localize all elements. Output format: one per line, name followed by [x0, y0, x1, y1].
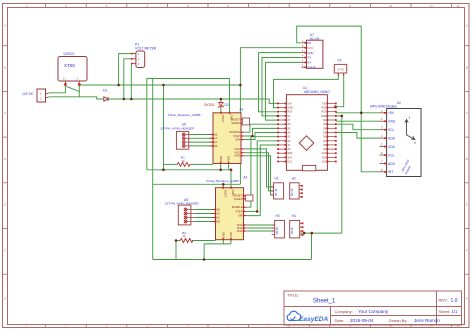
junction MPU 5V: [360, 112, 363, 115]
svg-text:M4 4P: M4 4P: [290, 227, 294, 235]
svg-text:GND: GND: [287, 107, 293, 110]
junction lower bus / D2: [220, 98, 223, 101]
svg-text:TX: TX: [307, 56, 311, 60]
wire A1 gnd bus: [147, 169, 231, 171]
svg-text:10: 10: [389, 4, 393, 8]
A1 right pin stubs: [209, 120, 245, 156]
wire 12V jack pin2: [49, 96, 80, 98]
svg-text:GND: GND: [307, 51, 313, 55]
wire A1 step to nano: [245, 128, 278, 136]
wire R3 left lead: [176, 241, 180, 260]
A2 jumper box: [246, 195, 253, 201]
svg-text:D2: D2: [225, 103, 229, 107]
svg-text:JST-PH_4-PIN_HEADER: JST-PH_4-PIN_HEADER: [160, 126, 195, 130]
svg-text:1A: 1A: [214, 136, 217, 140]
svg-text:RST: RST: [321, 111, 326, 114]
svg-text:G: G: [466, 297, 468, 301]
wire HC05 GND to nano: [259, 53, 302, 112]
svg-text:EasyEDA: EasyEDA: [299, 316, 329, 323]
svg-text:Sheet:: Sheet:: [439, 309, 451, 314]
module U2 MPU-6050: [370, 101, 421, 177]
buzzer P3: [334, 59, 346, 77]
junction A2 bus / VMOT: [222, 183, 225, 186]
svg-text:Your Company: Your Company: [358, 309, 389, 314]
wire voltmeter pin1: [119, 54, 132, 85]
svg-text:M3 4P: M3 4P: [275, 227, 279, 235]
svg-text:RST: RST: [287, 111, 292, 114]
wire A1 dir to nano: [245, 133, 278, 140]
svg-text:VDD: VDD: [227, 156, 231, 162]
nano diamond: [299, 136, 314, 151]
svg-text:C: C: [466, 111, 468, 115]
wire nano to MPU SDA: [336, 133, 380, 139]
diode D2 (zener): [204, 103, 229, 108]
svg-text:2B: 2B: [214, 144, 217, 148]
wire U5 to A1 pins: [190, 134, 213, 136]
svg-text:TITLE:: TITLE:: [287, 293, 299, 298]
svg-text:A2: A2: [243, 176, 247, 180]
svg-text:D: D: [4, 157, 6, 161]
A1 jumper box: [242, 118, 249, 125]
junction lower bus / VM3: [130, 98, 133, 101]
svg-text:1A: 1A: [217, 211, 220, 215]
svg-text:RX0: RX0: [322, 107, 327, 110]
svg-text:DIR: DIR: [238, 214, 243, 218]
junction gnd bus / A2 gnd: [230, 169, 233, 172]
svg-text:12V DC: 12V DC: [22, 92, 34, 96]
svg-text:E: E: [4, 203, 6, 207]
svg-text:XDA: XDA: [388, 145, 396, 149]
svg-text:GND: GND: [231, 190, 235, 196]
svg-text:12: 12: [456, 4, 460, 8]
wire HC05 EN loop: [297, 26, 362, 113]
svg-text:Pololu_Breakout_A4988: Pololu_Breakout_A4988: [168, 113, 201, 117]
wire R3 right lead: [192, 240, 216, 242]
svg-text:D10: D10: [322, 152, 327, 155]
svg-text:1.0: 1.0: [451, 298, 458, 304]
svg-text:2019-09-04: 2019-09-04: [350, 318, 374, 323]
wire bottom bus riser: [203, 244, 205, 260]
svg-text:2A: 2A: [214, 140, 217, 144]
header P1 VOLT METER: [131, 42, 157, 67]
svg-text:REF: REF: [287, 152, 292, 155]
svg-text:B: B: [4, 66, 6, 70]
svg-text:XCL: XCL: [388, 153, 395, 157]
svg-text:VMOT: VMOT: [224, 190, 228, 198]
svg-text:ADO: ADO: [388, 162, 396, 166]
junction buzzer right: [334, 105, 337, 108]
wire switch diagonal: [67, 86, 80, 91]
svg-text:U2: U2: [397, 101, 401, 105]
wire R1 right lead: [190, 163, 213, 165]
svg-text:B: B: [466, 66, 468, 70]
A1 pin labels: [214, 115, 241, 158]
wire HC05 VCC to vertical: [240, 48, 301, 185]
svg-text:A: A: [4, 24, 6, 28]
svg-text:RX: RX: [307, 61, 311, 65]
wire loop top: [147, 78, 230, 80]
svg-text:M2 4P: M2 4P: [290, 188, 294, 196]
title block: [284, 291, 462, 325]
svg-text:11: 11: [430, 4, 433, 8]
header U5 JST-PH_4-PIN_HEADER: [160, 123, 195, 150]
wire A2 bottom pins: [222, 240, 224, 244]
junction top bus / x163: [162, 84, 165, 87]
wire A1 MS3 to H1: [245, 156, 274, 195]
wire A2 top gnd pin: [230, 170, 232, 188]
svg-text:MS3: MS3: [234, 154, 240, 158]
svg-text:VDD: VDD: [229, 232, 233, 238]
svg-text:G: G: [4, 297, 6, 301]
svg-text:Jens Ramon: Jens Ramon: [414, 318, 440, 323]
svg-text:GND: GND: [219, 156, 223, 162]
svg-text:Sheet_1: Sheet_1: [313, 299, 336, 305]
junction A1 step: [251, 135, 254, 138]
svg-text:H2: H2: [292, 177, 296, 181]
wire nano right to H4 bus: [336, 116, 342, 233]
header H3: [272, 214, 285, 238]
junction nano/H4 riser: [341, 115, 344, 118]
wire A2 bottom bus: [204, 243, 231, 245]
nano right pin stubs: [327, 103, 336, 161]
wire A1 MS1 to H1: [245, 149, 274, 187]
svg-text:GND: GND: [321, 115, 327, 118]
wire jack to diode D1: [78, 86, 80, 97]
svg-text:D: D: [466, 157, 468, 161]
wire lower bus after D1: [108, 99, 278, 103]
svg-text:ENABLE: ENABLE: [232, 205, 243, 209]
wire to diode D1: [79, 97, 103, 99]
junction nano TX pin: [277, 115, 280, 118]
wire HC05 TX to nano: [262, 58, 302, 116]
svg-text:DIR: DIR: [235, 137, 240, 141]
svg-text:1B: 1B: [217, 207, 220, 211]
wire U6 to A2 pins: [194, 209, 216, 211]
wire nano to MPU 5V: [336, 112, 380, 114]
A1 pin ticks: [212, 112, 243, 164]
stepper driver A1 Pololu_Breakout_A4988: [168, 108, 250, 164]
svg-text:1B: 1B: [214, 132, 217, 136]
svg-text:F: F: [466, 248, 468, 252]
svg-text:P3: P3: [338, 59, 342, 63]
junction top bus / x248: [239, 84, 242, 87]
svg-text:0775: 0775: [338, 67, 345, 71]
svg-text:GND: GND: [230, 115, 234, 121]
svg-text:D1: D1: [103, 89, 107, 93]
junction bottom bus / riser: [203, 258, 206, 261]
header H1: [271, 177, 284, 199]
wire vertical x152 long: [152, 79, 154, 260]
svg-text:H3: H3: [276, 214, 280, 218]
wire bottom bus to H4 bus riser: [311, 233, 313, 259]
svg-text:1k: 1k: [183, 234, 187, 238]
wire bottom long bus: [153, 259, 312, 261]
junction A2 step: [256, 210, 259, 213]
junction H4 bus b: [311, 232, 314, 235]
svg-text:MS1: MS1: [234, 147, 240, 151]
svg-text:VIN: VIN: [287, 102, 291, 105]
svg-text:1/1: 1/1: [452, 309, 458, 314]
wire MPU INT riser: [361, 113, 379, 172]
svg-text:VOLT METER: VOLT METER: [135, 46, 157, 50]
junction top bus / VM1: [117, 84, 120, 87]
svg-text:Pololu_Breakout_A4988: Pololu_Breakout_A4988: [206, 179, 239, 183]
svg-text:H4: H4: [292, 214, 296, 218]
wire R1 left lead: [164, 163, 178, 165]
svg-text:E: E: [466, 203, 468, 207]
resistor R3: [180, 231, 193, 243]
wire D2 link top: [220, 99, 222, 102]
svg-text:1+: 1+: [63, 77, 66, 81]
svg-text:+5V: +5V: [388, 111, 395, 115]
svg-text:D13: D13: [287, 161, 292, 164]
junction gnd bus / A1 pin: [219, 169, 222, 172]
wire D2 link bottom: [220, 107, 222, 113]
header H2: [290, 177, 303, 199]
svg-text:GND: GND: [221, 232, 225, 238]
MPU axis icon: [405, 120, 415, 140]
wire A2 dir to nano: [248, 145, 278, 216]
svg-text:STEP: STEP: [235, 209, 242, 213]
wire A2 enable to nano: [248, 137, 278, 208]
connector XT60: [58, 52, 87, 86]
svg-text:5V: 5V: [287, 115, 290, 118]
wire H4 area bus: [300, 232, 342, 234]
diode D1: [103, 89, 108, 102]
wire voltmeter pin2: [124, 59, 132, 99]
wire A1 bottom pins to gnd bus: [220, 164, 222, 170]
svg-text:A1: A1: [240, 108, 244, 112]
svg-text:STATE: STATE: [307, 65, 316, 69]
EasyEDA logo: [287, 311, 328, 323]
wire nano to MPU GND: [336, 120, 380, 122]
wire A1 MS2 to H1: [245, 153, 274, 191]
wire nano to MPU SCL: [336, 124, 380, 130]
wire buzzer right leg to nano: [336, 73, 344, 107]
svg-text:TX1: TX1: [322, 102, 327, 105]
wire 12V jack pin1 to XT60 pin1: [49, 85, 66, 93]
wire A2 MS3 to H3: [248, 230, 275, 232]
svg-text:INT: INT: [388, 170, 393, 174]
svg-text:M1 4P: M1 4P: [274, 188, 278, 196]
svg-text:STEP: STEP: [233, 134, 240, 138]
junction gnd bus / R1: [162, 169, 165, 172]
svg-text:12VDC: 12VDC: [63, 52, 75, 56]
svg-text:Company:: Company:: [335, 309, 353, 314]
wire A2 VMOT drop: [222, 184, 224, 187]
svg-text:VCC: VCC: [307, 46, 313, 50]
wire +12V top bus: [79, 84, 240, 86]
svg-text:SLEEP: SLEEP: [234, 197, 243, 201]
wire voltmeter pin3: [130, 63, 133, 99]
svg-text:2A: 2A: [217, 215, 220, 219]
svg-text:2-: 2-: [77, 77, 79, 81]
svg-text:MS3: MS3: [237, 229, 243, 233]
svg-text:REV:: REV:: [439, 298, 448, 303]
svg-text:A: A: [466, 24, 468, 28]
mcu U1 ARDUINO_NANO: [277, 86, 336, 171]
resistor R1: [177, 155, 190, 166]
svg-text:C: C: [4, 111, 6, 115]
svg-text:ENABLE: ENABLE: [229, 130, 240, 134]
wire vertical x163: [163, 85, 165, 170]
nano pin ticks: [277, 103, 286, 163]
wire buzzer left leg to nano: [274, 73, 339, 108]
wire A2 MS2 to H3: [248, 227, 275, 229]
wire A1 enable to nano: [245, 124, 278, 132]
junction lower bus / VM2: [123, 98, 126, 101]
wire vertical x146: [146, 79, 148, 170]
header U6 JST-PH_4-PIN_HEADER: [165, 198, 200, 225]
wire A2 step to nano: [248, 141, 278, 212]
junction H4 bus a: [303, 232, 306, 235]
nano usb: [302, 165, 315, 170]
junction R3: [175, 239, 178, 242]
svg-text:Drawn By:: Drawn By:: [389, 318, 407, 323]
connector 12V DC jack P2: [22, 89, 49, 102]
svg-text:D11: D11: [322, 156, 327, 159]
nano pin names: [287, 102, 293, 163]
svg-text:XT60: XT60: [64, 63, 75, 68]
header H4: [290, 214, 304, 238]
svg-text:SCL: SCL: [388, 128, 395, 132]
svg-text:D12: D12: [322, 161, 327, 164]
svg-text:2B: 2B: [217, 219, 220, 223]
stepper driver A2 Pololu_Breakout_A4988: [206, 176, 253, 241]
wire A2 MS1 to H3: [248, 224, 275, 226]
svg-text:DIODE: DIODE: [204, 103, 215, 107]
svg-text:Date:: Date:: [335, 318, 345, 323]
wire A2 supply bus: [153, 183, 241, 185]
svg-text:H1: H1: [275, 177, 279, 181]
svg-text:SLEEP: SLEEP: [231, 121, 240, 125]
svg-text:GND: GND: [388, 120, 396, 124]
svg-text:EN: EN: [307, 41, 311, 45]
module U7 HC-05: [302, 33, 323, 69]
svg-text:3V3: 3V3: [287, 156, 292, 159]
svg-text:SDA: SDA: [388, 137, 396, 141]
svg-text:1k: 1k: [182, 159, 186, 163]
svg-text:VMOT: VMOT: [221, 115, 225, 123]
wire HC05 RX to nano: [266, 62, 302, 120]
nano left pin stubs: [278, 103, 287, 161]
svg-text:ARDUINO_NANO: ARDUINO_NANO: [304, 90, 330, 94]
wire A1 top gnd pin: [229, 79, 231, 113]
svg-text:F: F: [4, 248, 6, 252]
